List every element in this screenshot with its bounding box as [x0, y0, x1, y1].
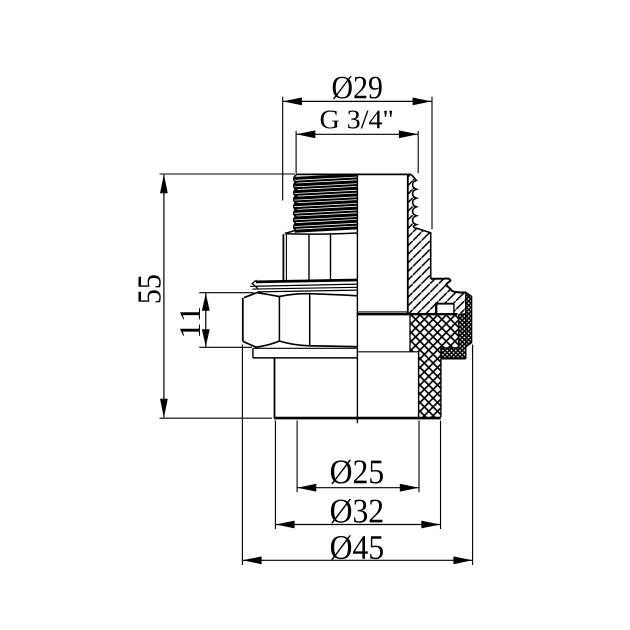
- wire dim extension line G3/4 right: [417, 131, 419, 173]
- wire dim extension line D45 left: [241, 345, 243, 566]
- thread runout shoulder: [285, 230, 296, 233]
- flange line 3: [253, 287, 358, 289]
- thread helix lines: [295, 175, 358, 178]
- adapter hex face line 2: [330, 235, 332, 281]
- adapter hex top edge: [285, 233, 358, 234]
- shoulder thin line: [357, 311, 408, 313]
- centerline vertical: [356, 175, 358, 424]
- flange left zigzag: [252, 280, 258, 289]
- nut lip bottom edge: [253, 347, 357, 349]
- wire dim extension line 55 top: [160, 173, 296, 175]
- metal insert hatched section: [408, 175, 466, 314]
- white window rectangle: [436, 304, 454, 314]
- dimension 11 vertical line: [205, 293, 207, 347]
- wire dim extension line D32 left: [274, 421, 276, 530]
- metal insert bore edge: [407, 175, 409, 314]
- label D29: [333, 76, 382, 99]
- socket left edge: [274, 358, 276, 418]
- wire dim extension line 55 bottom: [160, 417, 273, 419]
- socket top edge: [253, 357, 358, 359]
- dimension G3/4 line: [297, 133, 418, 135]
- wire dim extension line 11 bottom: [199, 346, 252, 348]
- label 11: [180, 308, 200, 336]
- nut hex left outline: [242, 298, 244, 341]
- plastic body hatched section: [410, 315, 458, 417]
- adapter hex chamfer line: [285, 234, 287, 280]
- wire dim extension line D25 right: [418, 421, 420, 493]
- label D32: [331, 499, 383, 523]
- dimension D25 line: [298, 487, 419, 489]
- nut lip left edge: [252, 348, 254, 358]
- body left edge upper: [409, 315, 411, 351]
- flange line 4: [257, 290, 357, 292]
- part top edge: [296, 173, 411, 175]
- nut bottom edge right: [441, 357, 466, 359]
- union nut dense hatched section: [441, 293, 471, 359]
- shoulder thick line: [357, 313, 458, 315]
- adapter hex left outline: [282, 234, 284, 280]
- nut hex top wavy edge: [244, 293, 357, 298]
- body column inner edge: [418, 352, 420, 417]
- wire dim extension line D32 right: [440, 421, 442, 530]
- dimension D32 line: [276, 524, 440, 526]
- nut hex bottom wavy edge: [243, 341, 358, 347]
- collar step edge: [431, 279, 466, 293]
- label 55: [139, 275, 161, 302]
- label D25: [331, 460, 383, 484]
- body inner shoulder edge: [357, 351, 419, 353]
- metal insert outer profile with thread zigzag: [411, 175, 430, 279]
- nut hex face line 2: [309, 294, 311, 346]
- wire dim extension line G3/4 left: [295, 131, 297, 173]
- thread left wavy edge: [294, 175, 297, 230]
- label D45: [331, 535, 383, 559]
- wire dim extension line D29 left: [282, 97, 284, 201]
- wire dim extension line 11 top: [199, 292, 253, 294]
- wire dim extension line D45 right: [472, 345, 474, 566]
- adapter hex face line 1: [308, 235, 310, 281]
- nut section internal edge: [465, 295, 467, 359]
- part bottom edge: [274, 417, 441, 420]
- label G3/4: [321, 111, 392, 129]
- wire dim extension line D29 right: [431, 97, 433, 230]
- flange line 2: [250, 284, 357, 286]
- dimension D29 line: [283, 100, 431, 102]
- body column outer edge: [440, 348, 442, 417]
- dimension 55 vertical line: [163, 175, 165, 418]
- dimension D45 line: [243, 559, 472, 561]
- wire dim extension line D25 left: [296, 421, 298, 493]
- flange top thick edge: [256, 280, 358, 282]
- nut hex face line 1: [278, 297, 280, 341]
